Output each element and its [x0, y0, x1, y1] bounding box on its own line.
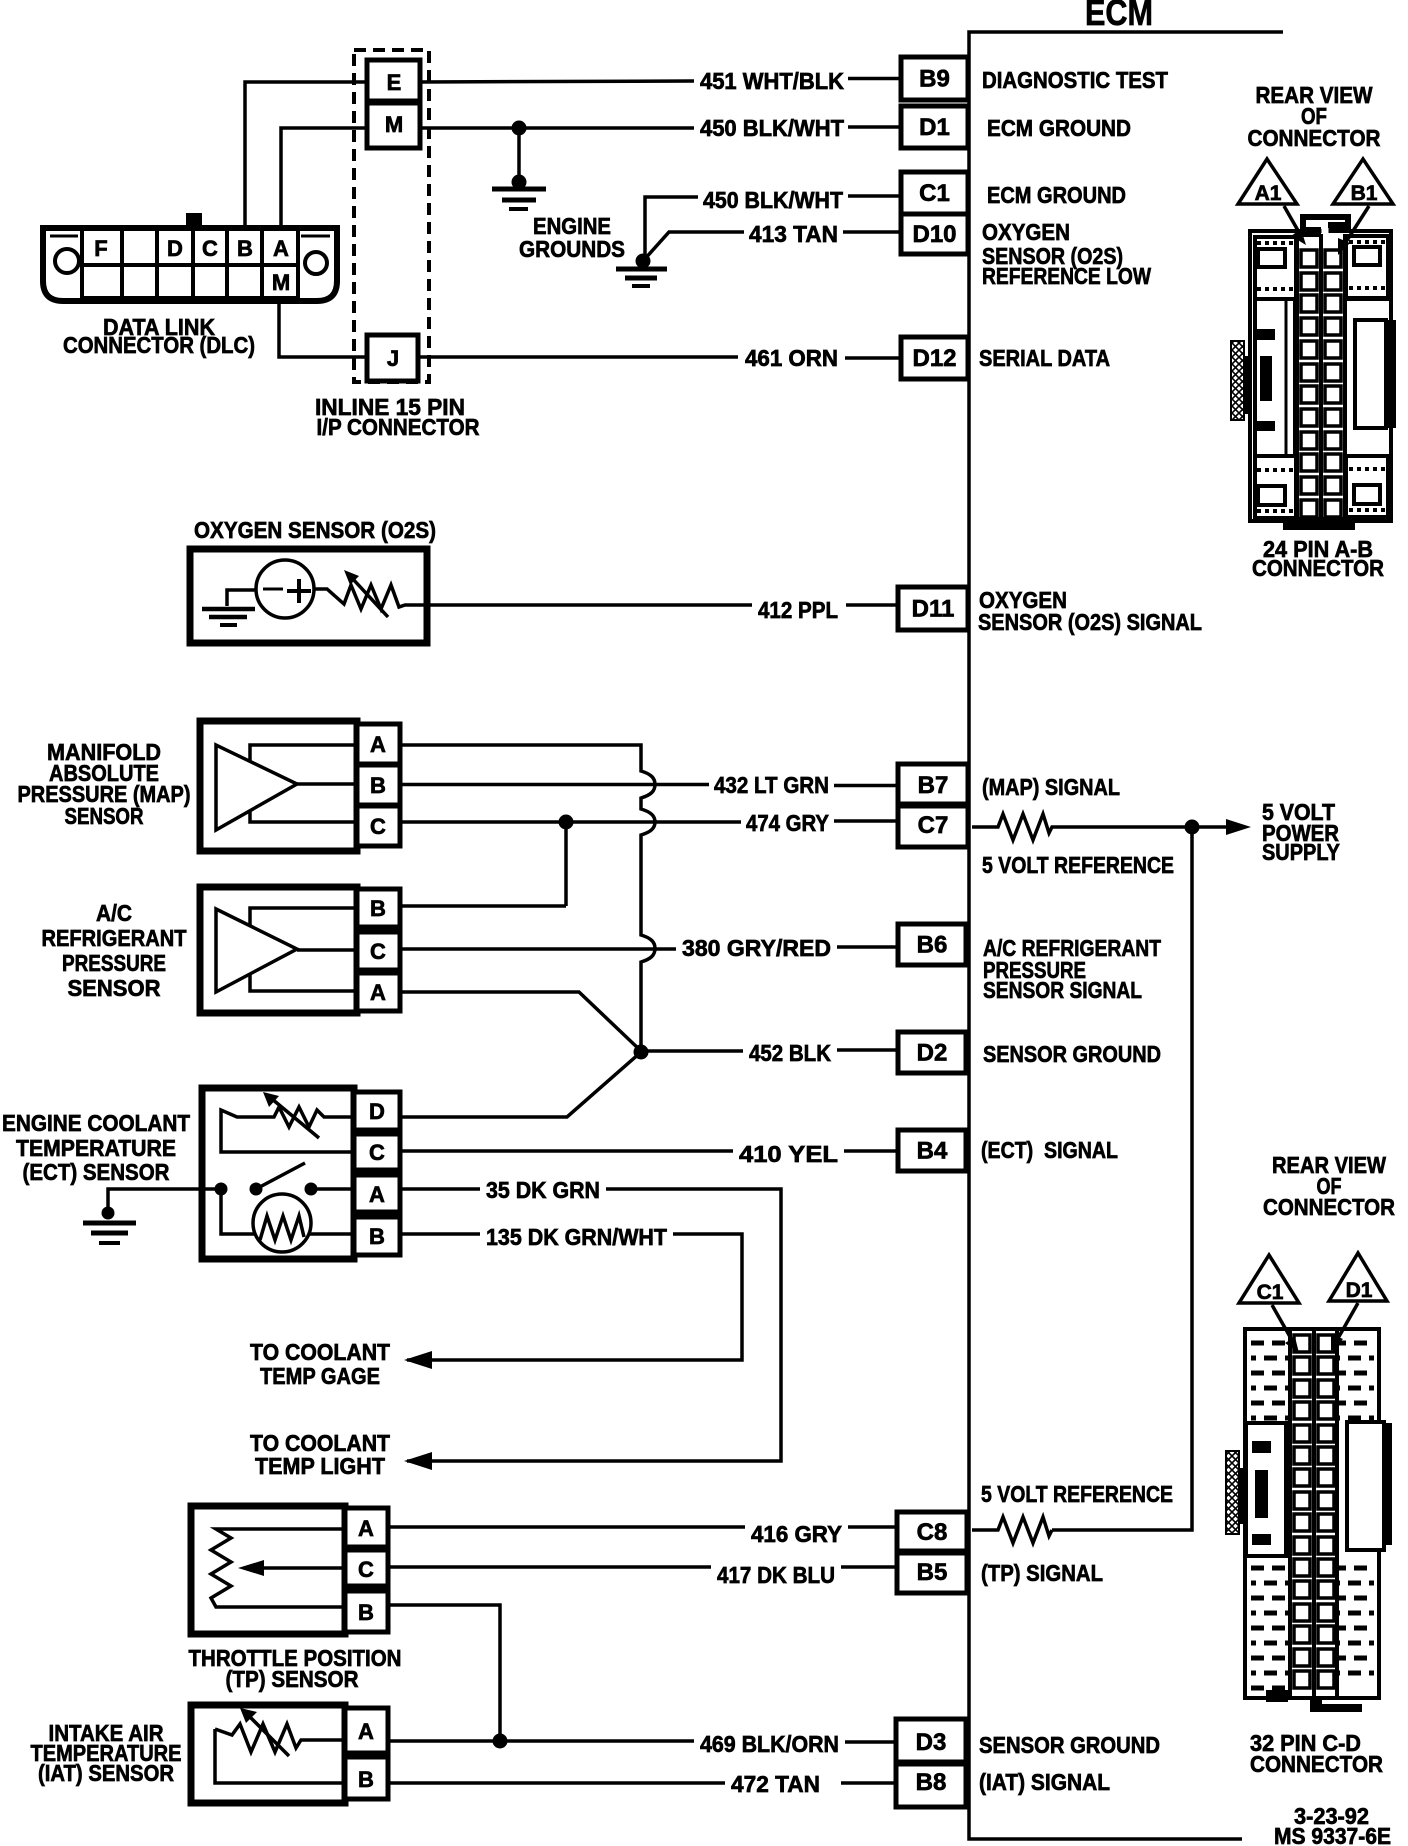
svg-text:A: A [369, 1182, 385, 1207]
wire ECT C to ECM B4 (410 YEL) [400, 1149, 733, 1153]
ECM pin pair D3/B8 outer box [896, 1719, 966, 1807]
svg-text:TO COOLANT: TO COOLANT [250, 1339, 390, 1365]
svg-text:416 GRY: 416 GRY [751, 1521, 842, 1547]
svg-text:5 VOLT REFERENCE: 5 VOLT REFERENCE [982, 852, 1174, 878]
svg-text:M: M [272, 270, 290, 295]
DLC top tab [186, 213, 202, 228]
svg-text:D1: D1 [1346, 1279, 1373, 1302]
svg-text:D1: D1 [919, 114, 950, 141]
svg-text:472 TAN: 472 TAN [731, 1771, 820, 1797]
svg-text:B6: B6 [917, 932, 948, 959]
svg-text:SUPPLY: SUPPLY [1262, 839, 1340, 865]
wire 5V bus down to C8 resistor [1052, 827, 1192, 1530]
A/C internal lead A [250, 975, 357, 991]
wire junction down to engine ground 1 [517, 128, 521, 182]
arrow to coolant temp gage [404, 1351, 432, 1369]
svg-text:D11: D11 [912, 596, 955, 623]
svg-text:432 LT GRN: 432 LT GRN [714, 772, 829, 798]
wire I/P pin J to ECM D12 (461 ORN) [418, 355, 738, 359]
TP pin C [345, 1550, 388, 1586]
A/C amplifier triangle [216, 909, 297, 992]
svg-text:A/C: A/C [96, 900, 132, 926]
ECM module boundary line [969, 32, 1283, 1839]
24 pin connector corner block top-left [1255, 237, 1296, 299]
svg-text:ECM GROUND: ECM GROUND [987, 182, 1126, 208]
DLC top edge notch left [50, 235, 78, 238]
wire engine ground 2 elbow to ECM C1 (450 BLK/WHT) [645, 197, 698, 261]
arrow C1 into connector [1272, 1305, 1293, 1342]
intake air temperature sensor box [191, 1705, 345, 1803]
svg-text:C8: C8 [917, 1519, 948, 1546]
svg-text:TEMP GAGE: TEMP GAGE [260, 1363, 380, 1389]
24 pin connector left body detail [1255, 299, 1295, 456]
A/C internal lead C [297, 948, 357, 952]
wire MAP A to sensor-ground bus (vertical with hops) [400, 745, 655, 1052]
engine ground symbol 1 [492, 187, 546, 192]
ECT ground wire [108, 1189, 221, 1211]
resistor 5V reference at C8 [972, 1517, 1052, 1543]
wire MAP C to ECM C7 (474 GRY) [400, 820, 741, 824]
svg-text:C: C [370, 939, 386, 964]
IAT pin B [345, 1757, 388, 1799]
ECM pin pair C8/B5 outer box [897, 1512, 967, 1593]
connector key triangle A1 [1238, 159, 1297, 204]
wire DLC-B to I/P pin E [245, 82, 367, 228]
wire IAT B to ECM B8 (472 TAN) [388, 1781, 725, 1785]
ECT thermistor circle [253, 1194, 311, 1252]
svg-text:D10: D10 [912, 221, 956, 248]
junction 5V reference branch [559, 815, 574, 830]
svg-text:B7: B7 [918, 772, 949, 799]
TP internal resistor track [211, 1529, 345, 1607]
svg-text:D2: D2 [917, 1040, 948, 1067]
svg-text:B5: B5 [917, 1559, 948, 1586]
svg-text:REFRIGERANT: REFRIGERANT [42, 925, 187, 951]
O2S internal ground symbol [202, 607, 255, 612]
MAP internal lead B [297, 782, 357, 786]
svg-text:A: A [358, 1719, 374, 1744]
svg-text:DIAGNOSTIC TEST: DIAGNOSTIC TEST [982, 67, 1168, 93]
svg-text:PRESSURE: PRESSURE [62, 950, 166, 976]
svg-text:417 DK BLU: 417 DK BLU [717, 1562, 835, 1588]
svg-text:B: B [358, 1767, 374, 1792]
connector key triangle D1 [1329, 1253, 1387, 1301]
junction on 450 wire [512, 121, 527, 136]
ECM pin B9 [901, 57, 968, 100]
svg-text:451 WHT/BLK: 451 WHT/BLK [700, 68, 844, 94]
svg-text:CONNECTOR (DLC): CONNECTOR (DLC) [63, 332, 255, 358]
svg-text:D: D [167, 236, 183, 261]
junction 5V supply [1185, 820, 1200, 835]
engine ground symbol 2 [616, 267, 667, 272]
data link connector DLC body [43, 228, 337, 301]
svg-text:OXYGEN: OXYGEN [982, 219, 1070, 245]
24 pin connector top latch [1300, 214, 1351, 220]
resistor 5V reference at C7 [972, 814, 1185, 840]
IAT pin A [345, 1708, 388, 1753]
IAT internal variable resistor [215, 1724, 345, 1752]
svg-text:SENSOR: SENSOR [65, 803, 144, 829]
oxygen sensor O2S box [190, 549, 427, 643]
DLC mounting hole right [305, 252, 327, 274]
DLC top edge notch right [301, 235, 330, 238]
junction at engine ground 2 [636, 254, 651, 269]
connector key triangle C1 [1239, 1255, 1299, 1303]
svg-text:M: M [385, 112, 403, 137]
svg-text:I/P CONNECTOR: I/P CONNECTOR [317, 414, 480, 440]
24 pin connector lock tab hatch [1231, 341, 1244, 420]
A/C pin C [357, 932, 400, 970]
32 pin connector bottom tail [1266, 1690, 1288, 1702]
ECM pin B6 [898, 924, 966, 965]
wire DLC-A to I/P pin M [281, 128, 367, 228]
svg-text:(MAP) SIGNAL: (MAP) SIGNAL [982, 774, 1120, 800]
svg-text:474 GRY: 474 GRY [746, 810, 829, 836]
svg-text:SENSOR SIGNAL: SENSOR SIGNAL [983, 977, 1142, 1003]
O2S source circle with polarity [256, 560, 314, 618]
svg-text:GROUNDS: GROUNDS [519, 236, 625, 262]
I/P pin J box [367, 335, 418, 381]
svg-text:CONNECTOR: CONNECTOR [1252, 555, 1384, 581]
wire TP C to ECM B5 (417 DK BLU) [388, 1565, 711, 1569]
MAP internal lead A [250, 745, 357, 761]
svg-text:TEMP LIGHT: TEMP LIGHT [255, 1453, 385, 1479]
wire DLC-M to I/P pin J [279, 301, 367, 357]
ECM pin C1 [901, 172, 968, 214]
svg-text:452 BLK: 452 BLK [749, 1040, 831, 1066]
svg-text:C: C [358, 1557, 374, 1582]
inline 15 pin I/P connector dashed outline [354, 50, 429, 382]
arrow D1 into connector [1337, 1303, 1358, 1340]
svg-text:412 PPL: 412 PPL [758, 597, 838, 623]
svg-text:(TP) SENSOR: (TP) SENSOR [226, 1666, 359, 1692]
ECT switch contacts [215, 1183, 228, 1196]
TP wiper arrow [248, 1566, 345, 1570]
32 pin connector lock tab hatch [1226, 1451, 1239, 1534]
svg-text:C: C [202, 236, 218, 261]
A/C pin B [357, 889, 400, 927]
MAP pin B [357, 765, 400, 805]
O2S internal variable resistor [314, 585, 427, 609]
wire engine ground 2 diagonal to ECM D10 (413 TAN) [643, 232, 744, 261]
arrow B1 into connector [1344, 206, 1369, 245]
wire junction down to A/C sensor pin B [564, 822, 568, 906]
svg-text:C: C [369, 1140, 385, 1165]
svg-text:F: F [94, 236, 107, 261]
svg-text:A: A [273, 236, 289, 261]
svg-text:C1: C1 [919, 180, 950, 207]
svg-text:5 VOLT REFERENCE: 5 VOLT REFERENCE [981, 1481, 1173, 1507]
wire TP A to ECM C8 (416 GRY) [388, 1525, 745, 1529]
wire A/C C to ECM B6 (380 GRY/RED) [400, 947, 676, 951]
I/P connector pins E/M outer box [367, 60, 420, 148]
O2S internal ground wire [227, 590, 256, 606]
svg-text:B: B [358, 1600, 374, 1625]
svg-text:(TP) SIGNAL: (TP) SIGNAL [981, 1560, 1103, 1586]
24 pin connector pin columns [1295, 234, 1299, 519]
svg-text:(IAT) SIGNAL: (IAT) SIGNAL [979, 1769, 1110, 1795]
throttle position sensor box [191, 1506, 345, 1634]
MAP internal lead C [250, 810, 357, 822]
svg-text:MS 9337-6E: MS 9337-6E [1274, 1823, 1391, 1846]
wire O2S to ECM D11 (412 PPL) [427, 603, 752, 607]
wire ECT B to coolant temp gage (135 DK GRN/WHT) [400, 1232, 480, 1236]
IAT internal link to pin B [215, 1729, 345, 1783]
wire ECT A to coolant temp light (35 DK GRN) [400, 1187, 480, 1191]
svg-text:E: E [387, 70, 402, 95]
svg-text:C1: C1 [1257, 1281, 1284, 1304]
svg-text:ENGINE COOLANT: ENGINE COOLANT [2, 1110, 190, 1136]
ECT pin A [354, 1175, 400, 1212]
svg-text:REFERENCE LOW: REFERENCE LOW [982, 263, 1151, 289]
ECT thermistor element [260, 1216, 304, 1240]
32 pin connector striped seal bottom-right [1337, 1566, 1374, 1571]
A/C internal lead B [250, 908, 357, 925]
svg-text:C: C [370, 814, 386, 839]
svg-text:SENSOR (O2S) SIGNAL: SENSOR (O2S) SIGNAL [978, 609, 1202, 635]
ECT pin D [354, 1092, 400, 1130]
wire I/P pin M to ECM D1 (450 BLK/WHT) [420, 126, 694, 130]
IAT resistor arrow [249, 1716, 289, 1756]
DLC mounting hole left [55, 249, 79, 273]
arrow to coolant temp light [404, 1452, 432, 1470]
ECM pin D1 [901, 106, 968, 148]
svg-text:TEMPERATURE: TEMPERATURE [16, 1135, 176, 1161]
svg-text:B4: B4 [917, 1138, 948, 1165]
svg-text:A: A [358, 1516, 374, 1541]
A/C pin A [357, 973, 400, 1011]
32 pin connector striped seal bottom-left [1251, 1566, 1289, 1571]
junction TP-B / IAT-A [493, 1734, 508, 1749]
svg-text:SENSOR GROUND: SENSOR GROUND [979, 1732, 1160, 1758]
svg-text:CONNECTOR: CONNECTOR [1263, 1194, 1395, 1220]
wire A/C A to sensor ground junction [400, 992, 641, 1051]
wire A/C B up to 5V junction [400, 904, 566, 908]
O2S resistor arrow [352, 578, 388, 617]
svg-text:A: A [370, 980, 386, 1005]
ECT pin C [354, 1134, 400, 1170]
24 pin connector bottom bar [1283, 517, 1355, 530]
32 pin C-D connector body [1245, 1329, 1379, 1698]
svg-text:C7: C7 [918, 812, 949, 839]
svg-text:A: A [370, 732, 386, 757]
24 pin connector corner block bottom-right [1346, 456, 1388, 517]
svg-text:SENSOR GROUND: SENSOR GROUND [983, 1041, 1161, 1067]
ECM pin D12 [901, 337, 968, 379]
wire I/P pin E to ECM B9 (451 WHT/BLK) [420, 81, 694, 82]
MAP pin A [357, 724, 400, 764]
32 pin connector left body detail [1246, 1423, 1286, 1556]
ECT internal variable resistor [221, 1107, 354, 1152]
svg-text:(ECT) SENSOR: (ECT) SENSOR [23, 1159, 170, 1185]
ECT resistor arrow [272, 1099, 319, 1138]
24 pin connector right body detail [1345, 299, 1391, 456]
MAP sensor box [200, 721, 357, 851]
svg-text:B: B [237, 236, 253, 261]
svg-text:CONNECTOR: CONNECTOR [1250, 1751, 1383, 1777]
svg-text:469 BLK/ORN: 469 BLK/ORN [700, 1731, 839, 1757]
24 pin connector corner block bottom-left [1255, 456, 1296, 518]
svg-text:380 GRY/RED: 380 GRY/RED [682, 935, 831, 961]
wire MAP B to ECM B7 (432 LT GRN) [400, 783, 709, 787]
wire junction to ECM D2 (452 BLK) [645, 1049, 743, 1053]
svg-text:413 TAN: 413 TAN [749, 221, 838, 247]
svg-text:B9: B9 [919, 66, 950, 93]
svg-text:35 DK GRN: 35 DK GRN [486, 1177, 600, 1203]
wire TP B down to IAT ground junction [388, 1605, 500, 1742]
svg-text:A1: A1 [1255, 182, 1282, 205]
ECT pin B [354, 1217, 400, 1255]
32 pin connector striped seal top-right [1337, 1341, 1374, 1346]
ECM pin D2 [898, 1032, 966, 1073]
TP pin A [345, 1508, 388, 1547]
svg-text:SENSOR: SENSOR [68, 975, 161, 1001]
svg-text:J: J [387, 346, 399, 371]
wire IAT A to ECM D3 (469 BLK/ORN) [388, 1739, 694, 1743]
svg-text:ECM GROUND: ECM GROUND [987, 115, 1131, 141]
ECM pin B4 [898, 1130, 966, 1171]
MAP amplifier triangle [216, 745, 297, 830]
svg-text:SERIAL DATA: SERIAL DATA [979, 345, 1110, 371]
svg-text:(IAT) SENSOR: (IAT) SENSOR [38, 1760, 174, 1786]
svg-text:B8: B8 [916, 1769, 947, 1796]
MAP pin C [357, 806, 400, 846]
svg-text:D12: D12 [912, 345, 956, 372]
arrow A1 into connector [1284, 206, 1300, 234]
svg-text:CONNECTOR: CONNECTOR [1248, 125, 1381, 151]
connector key triangle B1 [1333, 159, 1393, 204]
ECT thermistor wires to pin B [221, 1189, 254, 1234]
svg-text:450 BLK/WHT: 450 BLK/WHT [700, 115, 844, 141]
ECM pin D10 [901, 214, 968, 254]
sensor ground junction node [634, 1045, 649, 1060]
wire junction diagonal to ECT pin D [400, 1052, 641, 1117]
svg-text:410 YEL: 410 YEL [739, 1141, 838, 1167]
svg-text:(ECT) SIGNAL: (ECT) SIGNAL [981, 1137, 1118, 1163]
svg-text:ECM: ECM [1085, 0, 1153, 33]
24 pin A-B connector body [1250, 231, 1391, 521]
svg-text:B1: B1 [1351, 182, 1378, 205]
svg-text:B: B [369, 1224, 385, 1249]
ECT ground symbol [83, 1221, 136, 1226]
A/C pressure sensor box [200, 887, 357, 1013]
svg-text:B: B [370, 896, 386, 921]
TP pin B [345, 1591, 388, 1632]
svg-text:135 DK GRN/WHT: 135 DK GRN/WHT [486, 1224, 667, 1250]
svg-text:461 ORN: 461 ORN [745, 345, 838, 371]
ECM pin pair B7/C7 outer box [898, 764, 968, 847]
32 pin connector right body detail [1347, 1422, 1384, 1550]
ECT switch lever [256, 1163, 305, 1189]
ECT switch to pin A wire [311, 1187, 354, 1191]
svg-text:OXYGEN SENSOR (O2S): OXYGEN SENSOR (O2S) [194, 517, 436, 543]
32 pin connector pin columns [1288, 1329, 1292, 1698]
svg-text:D3: D3 [916, 1729, 947, 1756]
svg-text:B: B [370, 773, 386, 798]
arrow to 5 volt power supply [1199, 825, 1236, 829]
ECT sensor box [202, 1088, 354, 1259]
24 pin connector corner block top-right [1346, 236, 1388, 298]
svg-text:D: D [369, 1099, 385, 1124]
32 pin connector striped seal top-left [1251, 1341, 1289, 1346]
ECM pin D11 [898, 587, 968, 630]
svg-text:450 BLK/WHT: 450 BLK/WHT [703, 187, 843, 213]
DLC pin grid [82, 229, 298, 298]
